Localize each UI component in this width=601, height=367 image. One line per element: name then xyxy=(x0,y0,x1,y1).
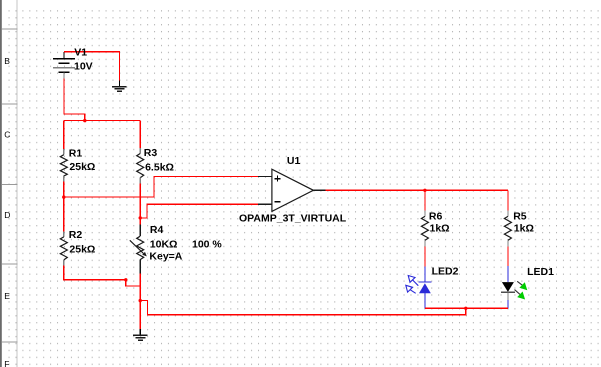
resistor R2 xyxy=(60,231,67,265)
wire top rail xyxy=(64,120,140,122)
battery V1 xyxy=(53,52,75,79)
svg-text:R4: R4 xyxy=(150,224,164,236)
svg-text:R3: R3 xyxy=(144,147,158,159)
svg-text:B: B xyxy=(4,56,10,66)
wire node to op-amp plus input xyxy=(64,177,258,198)
svg-text:F: F xyxy=(4,359,9,367)
junction xyxy=(83,119,86,122)
svg-text:U1: U1 xyxy=(287,155,301,167)
LED2 xyxy=(406,267,432,309)
wire R5 to LED1 xyxy=(507,246,509,266)
svg-text:V1: V1 xyxy=(74,47,87,59)
wire R2 bottom xyxy=(64,266,126,280)
op-amp U1 xyxy=(258,169,326,211)
wire op-amp output rail xyxy=(326,189,508,191)
svg-text:10KΩ: 10KΩ xyxy=(150,239,178,251)
svg-text:LED2: LED2 xyxy=(432,265,459,277)
wire top rail to R3 xyxy=(139,121,141,148)
wire battery bottom to node xyxy=(64,78,85,120)
wire LED bottom rail xyxy=(425,307,508,309)
wire R3 to node xyxy=(139,183,141,218)
junction xyxy=(139,299,142,302)
wire jog to R4 lead xyxy=(126,280,140,286)
wire to R1 xyxy=(63,121,65,150)
svg-text:25kΩ: 25kΩ xyxy=(69,243,95,255)
resistor R1 xyxy=(60,149,67,181)
svg-text:C: C xyxy=(4,130,10,140)
sheet margin strip xyxy=(0,0,18,367)
resistor R5 xyxy=(504,210,511,246)
wire R4 bottom xyxy=(139,273,141,300)
wire to R6 xyxy=(424,190,426,210)
wire to R5 xyxy=(507,190,509,210)
wire node to R2 xyxy=(63,197,65,231)
potentiometer R4 xyxy=(130,224,147,273)
LED1 xyxy=(501,266,528,308)
wire node to R4 xyxy=(139,218,141,224)
svg-text:Key=A: Key=A xyxy=(149,251,182,263)
svg-text:LED1: LED1 xyxy=(527,266,554,278)
svg-text:R6: R6 xyxy=(429,210,443,222)
svg-text:D: D xyxy=(4,210,10,220)
svg-text:1kΩ: 1kΩ xyxy=(514,223,534,235)
wire R1 to node xyxy=(63,181,65,197)
junction xyxy=(62,195,65,198)
wire R6 to LED2 xyxy=(424,246,426,266)
wire node to op-amp minus input xyxy=(140,204,258,218)
svg-text:100 %: 100 % xyxy=(192,239,222,251)
wire node to ground xyxy=(139,301,141,330)
wire node to LED rail xyxy=(140,301,466,315)
ground xyxy=(112,80,126,91)
resistor R3 xyxy=(137,148,144,183)
resistor R6 xyxy=(421,210,428,246)
svg-text:R2: R2 xyxy=(69,229,83,241)
svg-text:R5: R5 xyxy=(513,210,527,222)
ground xyxy=(133,329,148,340)
svg-text:E: E xyxy=(4,291,10,301)
junction xyxy=(124,278,127,281)
svg-text:25kΩ: 25kΩ xyxy=(69,161,95,173)
wire battery top to ground xyxy=(64,52,119,81)
svg-text:R1: R1 xyxy=(69,148,83,160)
svg-text:OPAMP_3T_VIRTUAL: OPAMP_3T_VIRTUAL xyxy=(239,212,347,224)
junction xyxy=(139,216,142,219)
svg-text:6.5kΩ: 6.5kΩ xyxy=(145,162,174,174)
junction xyxy=(423,189,426,192)
junction xyxy=(464,307,467,310)
svg-text:1kΩ: 1kΩ xyxy=(430,223,450,235)
svg-text:10V: 10V xyxy=(74,61,93,73)
